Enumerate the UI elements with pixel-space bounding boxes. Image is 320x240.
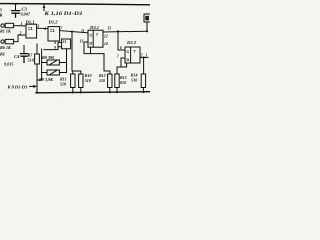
wire staple down to R12: [104, 54, 110, 74]
scan speckles: [3, 8, 149, 98]
svg-text:3: 3: [36, 25, 39, 29]
wire R8 leads: [42, 62, 67, 64]
wire R9 leads: [42, 72, 67, 74]
svg-text:К 1,16 D1-D3: К 1,16 D1-D3: [43, 12, 83, 17]
wire D1.2 out to D3.1 pin11: [60, 31, 88, 33]
node K 8 arrowhead: [33, 85, 37, 88]
svg-text:510: 510: [99, 78, 105, 83]
wire R1 to D1.1 pin1: [14, 25, 26, 27]
svg-text:6: 6: [120, 46, 122, 50]
wire D2.2 output: [140, 57, 148, 74]
wire D3.1 feedback staple: [84, 42, 104, 54]
svg-text:=1: =1: [50, 28, 55, 33]
svg-text:R1 1К: R1 1К: [0, 29, 12, 34]
resistor R9: [47, 70, 59, 75]
wire C3 top lead: [15, 4, 17, 10]
svg-text:9: 9: [54, 46, 56, 50]
wire top power rail: [0, 4, 150, 5]
wire R6 to D1.1 pin2: [14, 35, 26, 42]
wire D1.3 output to R8/R9 right rail: [66, 49, 68, 73]
wire drop to D2.2 pin6: [118, 31, 125, 50]
svg-text:1: 1: [145, 54, 147, 58]
resistor R1: [5, 23, 13, 27]
svg-text:15: 15: [108, 27, 112, 31]
svg-text:11: 11: [63, 40, 67, 44]
svg-text:D1.2: D1.2: [48, 20, 59, 25]
node K 8 arrow line: [30, 85, 35, 87]
node K 1,16 arrow to rail: [43, 5, 45, 11]
svg-text:С: С: [90, 33, 93, 38]
resistor R12: [108, 74, 112, 88]
svg-text:2: 2: [140, 54, 143, 58]
resistor R8: [47, 60, 59, 65]
input terminal X1: [1, 24, 4, 27]
wire D2.2 pin7 input and feedback: [117, 58, 127, 74]
svg-text:0,047: 0,047: [21, 12, 31, 17]
svg-text:8: 8: [54, 41, 56, 45]
svg-text:1: 1: [21, 22, 23, 26]
svg-text:R9 3,9К: R9 3,9К: [39, 77, 54, 82]
wire D3.1 pin13 input: [84, 41, 88, 43]
gate D1.3: [62, 39, 71, 49]
input terminal X2: [1, 40, 4, 43]
svg-text:D2.2: D2.2: [126, 40, 137, 45]
svg-text:R8 390: R8 390: [42, 55, 55, 60]
flip-flop U4 D2.2: [125, 47, 140, 63]
text labels: [0, 7, 147, 90]
svg-text:К 8 D1-D3: К 8 D1-D3: [7, 85, 28, 90]
capacitor C3: [12, 11, 20, 18]
svg-text:12: 12: [104, 35, 108, 39]
svg-text:510: 510: [85, 78, 91, 83]
svg-text:14: 14: [104, 42, 108, 46]
wire resistor bottoms to ground rail: [73, 88, 144, 93]
svg-text:4: 4: [43, 27, 46, 31]
svg-text:R6: R6: [0, 52, 5, 57]
wire C4 top lead: [23, 46, 25, 54]
svg-text:510: 510: [28, 58, 35, 63]
svg-text:510: 510: [131, 78, 137, 83]
svg-text:C4: C4: [14, 54, 20, 59]
resistor R14: [141, 74, 145, 88]
wire D1.1 out to D1.2: [37, 27, 48, 29]
svg-text:11: 11: [81, 29, 85, 33]
wire R7 top lead: [36, 44, 38, 54]
svg-text:R6 1К: R6 1К: [0, 45, 12, 50]
wire D1.3 inputs: [44, 42, 62, 49]
capacitor C4: [21, 54, 28, 63]
junction dots: [14, 3, 149, 94]
svg-text:0,015: 0,015: [4, 62, 13, 67]
svg-text:D: D: [126, 57, 129, 62]
resistor R7: [35, 54, 40, 64]
svg-text:D3.1: D3.1: [89, 25, 99, 30]
resistor R11: [79, 74, 83, 88]
op-amp U2 gate D1.2: [48, 27, 60, 41]
svg-text:D1.1: D1.1: [25, 20, 35, 25]
svg-text:2: 2: [19, 32, 22, 36]
svg-text:510: 510: [60, 82, 66, 87]
op-amp U1 gate D1.1: [26, 24, 37, 38]
wire R7 bottom to ground rail: [36, 64, 38, 93]
resistor R6: [5, 39, 13, 43]
resistor R13: [115, 74, 119, 88]
wire D3.1 output to right: [103, 30, 147, 33]
svg-text:13: 13: [80, 40, 84, 44]
resistor R10: [71, 74, 75, 88]
svg-text:D: D: [90, 41, 93, 46]
node K 1,16 arrowhead: [43, 4, 46, 8]
flip-flop U3 D3.1: [88, 30, 103, 47]
ground bottom rail: [36, 92, 150, 93]
svg-text:С: С: [126, 49, 129, 54]
connector box top right: [144, 14, 151, 22]
wire junction v3 from D1.2 output down to R10/R11: [72, 32, 81, 74]
wire left rail of R8/R9: [37, 49, 42, 80]
svg-text:=1: =1: [28, 26, 33, 31]
svg-text:810: 810: [120, 80, 126, 85]
